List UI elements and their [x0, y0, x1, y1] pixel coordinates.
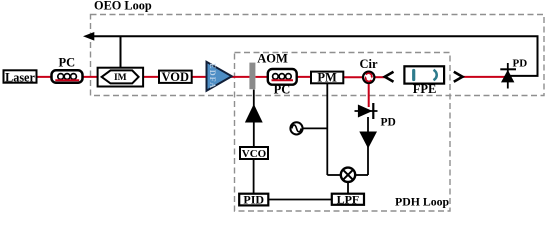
svg-text:Laser: Laser	[5, 70, 35, 84]
svg-text:FPE: FPE	[413, 82, 437, 96]
svg-text:EDFA: EDFA	[208, 63, 217, 89]
svg-text:VCO: VCO	[242, 148, 267, 160]
svg-text:LPF: LPF	[337, 192, 360, 206]
svg-text:PDH Loop: PDH Loop	[395, 195, 450, 209]
svg-text:PC: PC	[274, 83, 291, 97]
svg-text:IM: IM	[114, 73, 127, 83]
svg-text:PM: PM	[317, 70, 337, 84]
svg-text:PID: PID	[243, 192, 264, 206]
svg-text:Cir: Cir	[359, 57, 378, 71]
svg-text:OEO Loop: OEO Loop	[94, 0, 152, 13]
svg-text:AOM: AOM	[257, 52, 288, 66]
svg-text:VOD: VOD	[162, 70, 190, 84]
svg-text:PC: PC	[58, 56, 75, 70]
svg-text:PD: PD	[513, 57, 528, 69]
svg-text:PD: PD	[381, 117, 396, 129]
